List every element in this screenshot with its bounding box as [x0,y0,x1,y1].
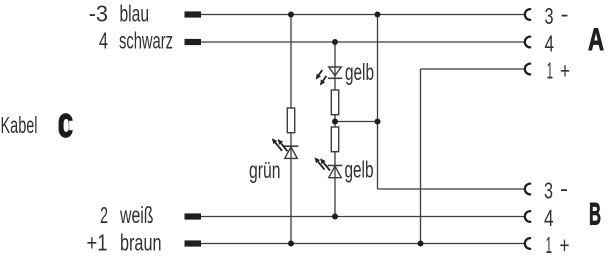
resistor R3 (branch 2 lower) [331,127,338,152]
connector pin contact B4 [525,211,530,222]
svg-text:gelb: gelb [345,59,374,85]
LED D2 gelb (branch 2 top) [328,77,342,79]
junction: braun / branch1 [288,241,294,247]
junction: blau / vertical to B3- [375,12,381,18]
wire: branch 2 vertical (yellow LED branch) [334,42,336,217]
svg-text:1: 1 [547,57,554,83]
cable end bar: weiss [185,213,202,219]
svg-text:3: 3 [545,3,554,29]
wire: blau horizontal (cable -3 to pin A3) [201,14,526,16]
resistor R1 (branch 1) [287,108,294,133]
svg-text:1: 1 [546,232,553,258]
junction: middle link / vertical to B3- [375,119,381,125]
cable end bar: schwarz [185,39,202,45]
wire: middle node horizontal link [335,121,378,123]
svg-text:-: - [560,175,568,201]
svg-text:gelb: gelb [345,157,374,183]
wire: braun horizontal (cable +1 to pin B1) [201,243,526,245]
svg-text:3: 3 [544,177,553,203]
svg-text:+1: +1 [87,230,108,256]
svg-text:4: 4 [99,28,108,54]
wire: branch 1 vertical (green LED branch) [290,15,292,244]
emission arrows: D3 [318,162,325,170]
LED D3 gelb (branch 2 bottom) [328,165,343,167]
cable end bar: blau [185,11,202,17]
junction: braun / vertical from A1+ [418,241,424,247]
svg-text:Kabel: Kabel [1,112,38,138]
wire: schwarz horizontal (cable 4 to pin A4) [201,41,526,43]
junction: weiss / branch2 [332,214,338,220]
wire: vertical from blau down to B3- corner [377,15,379,190]
svg-text:weiß: weiß [119,202,153,228]
connector pin contact B3 [525,184,530,195]
svg-text:-: - [561,1,569,27]
svg-text:4: 4 [545,30,555,56]
svg-text:-3: -3 [89,1,108,27]
svg-text:A: A [588,21,604,57]
wire: pin A1+ horizontal [421,68,526,70]
emission arrows: D2 [319,70,322,75]
svg-text:schwarz: schwarz [119,28,173,54]
junction: branch2 middle node [332,119,338,125]
label: cable designator C [59,113,73,138]
cable end bar: braun [185,240,202,246]
connector pin contact A4 [525,37,530,48]
emission arrows: D1 [275,143,282,151]
wire: weiss horizontal (cable 2 to pin B4) [201,216,526,218]
wire: B3- horizontal [378,188,526,190]
junction: blau / branch1 [288,12,294,18]
svg-text:B: B [589,196,601,232]
svg-text:braun: braun [120,230,162,256]
svg-text:2: 2 [100,202,108,228]
connector pin contact A3 [525,9,530,20]
LED D1 gruen (branch 1) [284,145,299,147]
svg-text:4: 4 [544,205,554,231]
connector pin contact B1 [525,238,530,249]
wire: vertical from A1+ down to braun [420,69,422,244]
junction: schwarz / branch2 [332,39,338,45]
resistor R2 (branch 2 upper) [331,90,338,115]
svg-text:grün: grün [249,157,281,183]
svg-text:blau: blau [120,1,150,27]
svg-text:+: + [560,57,570,83]
svg-text:+: + [560,232,570,258]
connector pin contact A1 [525,64,530,75]
